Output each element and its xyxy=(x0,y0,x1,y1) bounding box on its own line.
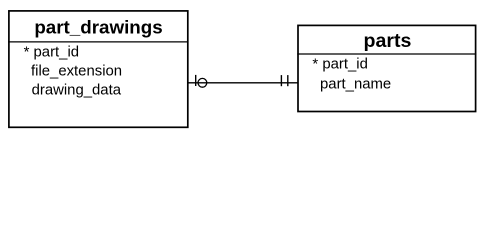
svg-text:drawing_data: drawing_data xyxy=(32,83,122,99)
svg-text:file_extension: file_extension xyxy=(31,64,122,80)
relationship wire part_drawings to parts xyxy=(188,82,298,84)
cardinality tick 2 at parts end xyxy=(287,75,289,86)
cardinality circle (zero) at part_drawings end xyxy=(198,78,207,87)
svg-text:part_drawings: part_drawings xyxy=(34,16,162,37)
cardinality tick 1 at parts end xyxy=(280,75,282,86)
svg-text:parts: parts xyxy=(364,30,412,52)
svg-text:part_name: part_name xyxy=(320,76,391,92)
entity part_drawings box xyxy=(9,11,188,127)
svg-text:* part_id: * part_id xyxy=(312,57,367,73)
cardinality tick at part_drawings end xyxy=(195,75,197,86)
part_drawings header separator xyxy=(8,41,188,43)
entity parts box xyxy=(298,25,476,111)
svg-text:* part_id: * part_id xyxy=(24,45,79,61)
parts header separator xyxy=(297,53,476,55)
